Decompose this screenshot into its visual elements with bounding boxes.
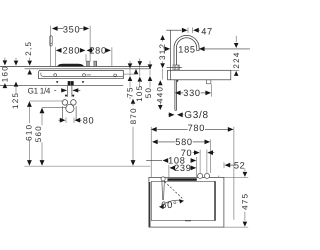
svg-text:125: 125 (11, 92, 20, 109)
svg-text:47: 47 (201, 27, 213, 37)
svg-text:224: 224 (232, 51, 241, 68)
svg-text:2,5: 2,5 (24, 41, 33, 56)
svg-text:280: 280 (89, 46, 106, 56)
svg-text:610: 610 (25, 124, 34, 141)
svg-text:G1 1/4: G1 1/4 (28, 87, 51, 96)
svg-text:475: 475 (241, 193, 250, 210)
svg-text:50: 50 (144, 87, 153, 99)
svg-text:312: 312 (158, 43, 167, 60)
svg-text:160: 160 (1, 65, 10, 82)
svg-text:870: 870 (129, 107, 138, 124)
svg-text:350: 350 (63, 24, 80, 34)
svg-text:52: 52 (234, 161, 246, 171)
svg-text:560: 560 (34, 125, 43, 142)
svg-text:580: 580 (175, 137, 192, 147)
svg-text:80: 80 (83, 116, 95, 126)
svg-text:185: 185 (178, 44, 195, 54)
svg-text:60°: 60° (161, 199, 177, 210)
svg-text:G3/8: G3/8 (184, 110, 208, 121)
svg-text:330: 330 (183, 88, 200, 98)
svg-text:239: 239 (174, 163, 191, 173)
svg-text:105: 105 (135, 85, 144, 102)
svg-text:780: 780 (188, 123, 205, 133)
svg-text:280: 280 (63, 46, 80, 56)
svg-text:75: 75 (125, 86, 134, 98)
svg-text:440: 440 (156, 86, 165, 103)
